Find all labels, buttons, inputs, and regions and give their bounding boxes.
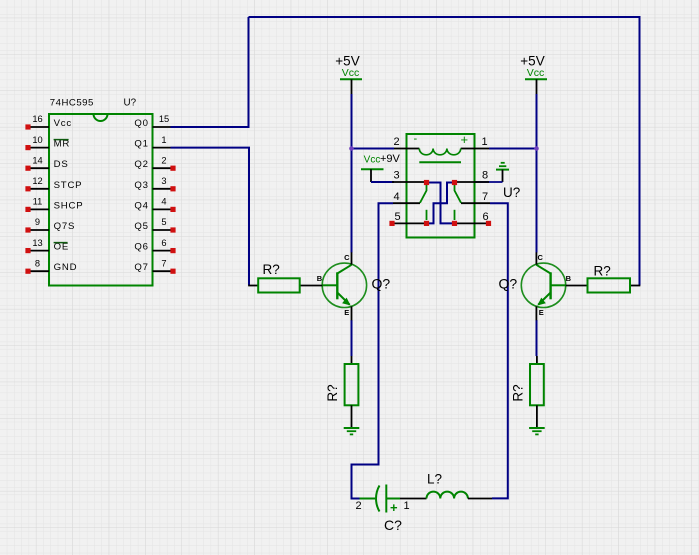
svg-text:13: 13 bbox=[32, 238, 42, 248]
transformer pin 2 bbox=[394, 136, 407, 148]
transformer polarity marks bbox=[414, 132, 469, 147]
IC pin 16 Vcc bbox=[25, 114, 72, 129]
svg-text:Q5: Q5 bbox=[134, 221, 148, 232]
svg-text:14: 14 bbox=[32, 155, 42, 165]
wire transformer pin 1 to right rail bbox=[489, 148, 537, 150]
svg-text:-: - bbox=[414, 133, 418, 145]
svg-text:8: 8 bbox=[482, 170, 488, 182]
wire right emitter down to R bbox=[536, 320, 538, 356]
IC pin 6 Q6 bbox=[134, 238, 175, 253]
svg-text:7: 7 bbox=[161, 258, 166, 268]
IC pin 13 OE bbox=[25, 238, 69, 253]
svg-text:9: 9 bbox=[35, 217, 40, 227]
power symbol +5V Vcc (left) bbox=[335, 54, 362, 95]
IC pin 4 Q4 bbox=[134, 197, 175, 212]
svg-text:B: B bbox=[566, 274, 572, 283]
wire transformer pin 7 down to inductor bbox=[490, 203, 508, 498]
wire capacitor to inductor bbox=[400, 498, 427, 500]
IC pin 11 SHCP bbox=[25, 197, 83, 212]
svg-text:R?: R? bbox=[594, 264, 611, 279]
node BR bbox=[452, 221, 457, 226]
node BL bbox=[424, 221, 429, 226]
wire base right bbox=[566, 285, 587, 287]
IC pin 7 Q7 bbox=[134, 258, 175, 273]
svg-text:+: + bbox=[461, 132, 469, 147]
power symbol Vcc +9V bbox=[361, 153, 401, 182]
svg-text:1: 1 bbox=[404, 500, 410, 512]
wire Q1 pin1 to left base resistor bbox=[171, 148, 250, 286]
wire left +5V rail down to collector bbox=[351, 94, 353, 253]
svg-text:8: 8 bbox=[35, 258, 40, 268]
resistor R? (right base) bbox=[588, 278, 631, 292]
svg-text:SHCP: SHCP bbox=[54, 200, 84, 211]
svg-text:2: 2 bbox=[356, 500, 362, 512]
wire transformer pin 4 down to capacitor bbox=[352, 203, 394, 498]
IC pin 5 Q5 bbox=[134, 217, 175, 232]
IC U? 74HC595 body bbox=[49, 114, 153, 286]
svg-text:3: 3 bbox=[161, 176, 166, 186]
inductor L? bbox=[427, 492, 468, 499]
IC pin 15 Q0 bbox=[134, 114, 170, 129]
IC pin 9 Q7S bbox=[25, 217, 75, 232]
transformer pin 7 bbox=[461, 191, 490, 203]
svg-text:R?: R? bbox=[263, 262, 280, 277]
ground (right emitter) bbox=[529, 428, 545, 434]
svg-text:B: B bbox=[317, 274, 323, 283]
svg-text:74HC595: 74HC595 bbox=[50, 97, 94, 108]
wire crossover TL to BR bbox=[427, 183, 455, 224]
transformer pin 4 bbox=[393, 191, 420, 203]
IC pin 1 Q1 bbox=[134, 135, 170, 150]
svg-text:16: 16 bbox=[32, 114, 42, 124]
transistor Q1 (left) bbox=[322, 252, 366, 320]
svg-text:15: 15 bbox=[159, 114, 169, 124]
transformer switch armature left bbox=[420, 184, 427, 203]
ground (left emitter) bbox=[344, 428, 360, 434]
wire junction to transformer pin 2 bbox=[352, 148, 395, 150]
svg-text:Q7S: Q7S bbox=[54, 221, 76, 232]
svg-text:5: 5 bbox=[161, 217, 166, 227]
transformer pin 8 bbox=[455, 170, 490, 182]
svg-text:5: 5 bbox=[395, 211, 401, 223]
svg-text:7: 7 bbox=[482, 191, 488, 203]
svg-text:+: + bbox=[390, 500, 398, 515]
IC pin 3 Q3 bbox=[134, 176, 175, 191]
transformer pin 6 bbox=[455, 211, 492, 226]
svg-text:Vcc: Vcc bbox=[364, 155, 381, 166]
svg-text:Q6: Q6 bbox=[134, 242, 148, 253]
wire Q0 pin15 to top rail bbox=[171, 17, 249, 127]
svg-text:C: C bbox=[344, 253, 350, 262]
svg-text:U?: U? bbox=[124, 97, 137, 108]
resistor R? (right emitter) bbox=[530, 356, 544, 428]
wire +9V to transformer pin 3 bbox=[371, 181, 394, 183]
svg-text:Q0: Q0 bbox=[134, 118, 148, 129]
svg-text:2: 2 bbox=[394, 136, 400, 148]
junction node right rail/pin1 bbox=[534, 146, 539, 151]
svg-text:12: 12 bbox=[32, 176, 42, 186]
transformer primary winding bbox=[407, 149, 475, 155]
svg-text:4: 4 bbox=[161, 197, 166, 207]
transformer pin 3 bbox=[392, 170, 427, 182]
resistor R? (left emitter) bbox=[345, 356, 359, 428]
IC pin 10 MR bbox=[25, 135, 70, 150]
wire top rail across bbox=[249, 17, 640, 286]
resistor R? (left base) bbox=[258, 278, 300, 292]
junction node left rail/pin2 bbox=[349, 146, 354, 151]
transformer pin 1 bbox=[475, 136, 490, 148]
svg-text:3: 3 bbox=[394, 170, 400, 182]
wire inductor to right riser bbox=[468, 498, 492, 500]
wire left emitter down to R bbox=[351, 320, 353, 356]
svg-text:R?: R? bbox=[325, 384, 340, 401]
wire right R pin bbox=[630, 285, 640, 287]
transformer pin 5 bbox=[389, 211, 426, 226]
transistor Q2 (right) bbox=[521, 252, 565, 320]
svg-text:Q3: Q3 bbox=[134, 180, 148, 191]
svg-text:E: E bbox=[344, 308, 349, 317]
svg-text:Vcc: Vcc bbox=[54, 118, 72, 129]
svg-text:10: 10 bbox=[32, 135, 42, 145]
svg-text:+9V: +9V bbox=[380, 153, 401, 165]
IC pin 12 STCP bbox=[25, 176, 82, 191]
svg-text:GND: GND bbox=[54, 262, 78, 273]
wire transformer pin 8 to ground bbox=[475, 181, 503, 183]
svg-text:STCP: STCP bbox=[54, 180, 83, 191]
IC pin 8 GND bbox=[25, 258, 77, 273]
wire base left bbox=[299, 285, 322, 287]
ground (earth) at transformer pin 8 bbox=[496, 163, 509, 182]
svg-text:R?: R? bbox=[510, 384, 525, 401]
node TR bbox=[452, 180, 457, 185]
transformer contact dash left bbox=[426, 210, 428, 220]
svg-text:E: E bbox=[539, 308, 544, 317]
IC pin 2 Q2 bbox=[134, 155, 175, 170]
svg-text:DS: DS bbox=[54, 159, 69, 170]
svg-text:Q?: Q? bbox=[372, 276, 391, 292]
svg-text:C?: C? bbox=[384, 517, 402, 533]
svg-text:4: 4 bbox=[394, 191, 400, 203]
svg-text:L?: L? bbox=[427, 472, 442, 487]
svg-text:1: 1 bbox=[161, 135, 166, 145]
capacitor C? bbox=[360, 485, 401, 513]
svg-text:C: C bbox=[537, 253, 543, 262]
svg-text:6: 6 bbox=[161, 238, 166, 248]
wire left R pin bbox=[248, 285, 258, 287]
IC pin 14 DS bbox=[25, 155, 68, 170]
wire crossover TR to BL bbox=[427, 183, 455, 224]
node TL bbox=[424, 180, 429, 185]
power symbol +5V Vcc (right) bbox=[520, 54, 547, 95]
svg-text:Q4: Q4 bbox=[134, 200, 148, 211]
svg-text:Q2: Q2 bbox=[134, 159, 148, 170]
svg-text:U?: U? bbox=[503, 185, 520, 200]
transformer contact dash right bbox=[454, 210, 456, 220]
svg-text:Q1: Q1 bbox=[134, 139, 148, 150]
wire right +5V rail down to collector bbox=[536, 94, 538, 253]
svg-text:Vcc: Vcc bbox=[527, 67, 545, 79]
transformer switch armature right bbox=[455, 184, 462, 203]
svg-text:11: 11 bbox=[33, 197, 43, 207]
svg-text:1: 1 bbox=[482, 136, 488, 148]
svg-text:2: 2 bbox=[161, 155, 166, 165]
svg-text:Q?: Q? bbox=[499, 276, 518, 292]
transformer core bar bbox=[419, 161, 461, 163]
transformer U? body bbox=[407, 134, 475, 238]
svg-text:Vcc: Vcc bbox=[342, 67, 360, 79]
svg-text:Q7: Q7 bbox=[134, 262, 148, 273]
